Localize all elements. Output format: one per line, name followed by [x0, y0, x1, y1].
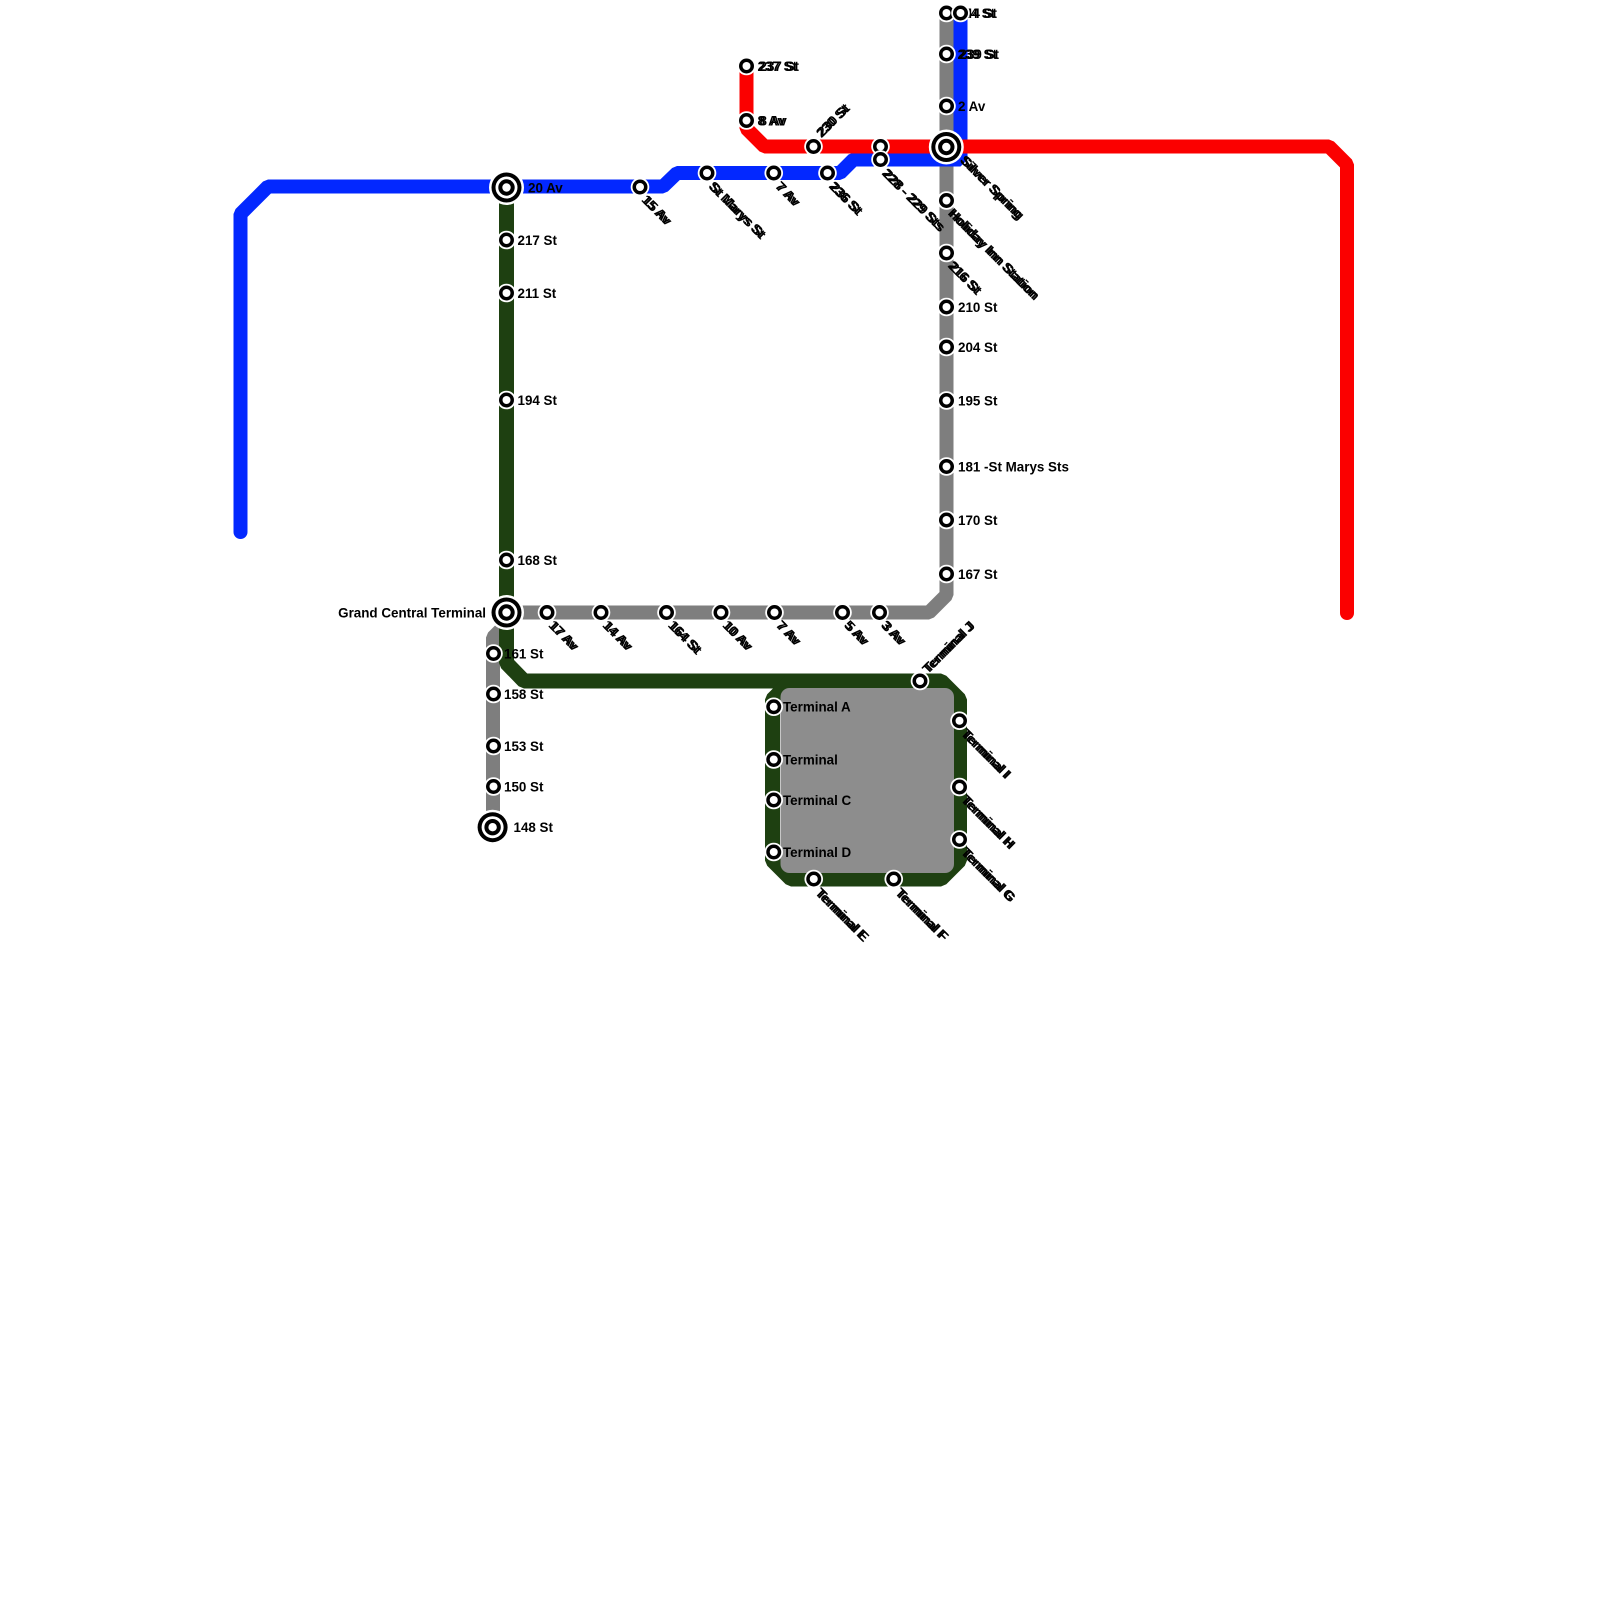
svg-text:194 St: 194 St — [518, 393, 558, 408]
node label 230 St (rotated) — [813, 100, 853, 140]
node station 7 Av gray — [765, 603, 784, 622]
svg-text:158 St: 158 St — [504, 687, 544, 702]
node station 164 St — [657, 603, 676, 622]
node station Terminal G — [950, 830, 969, 849]
svg-text:Terminal C: Terminal C — [783, 793, 852, 808]
svg-text:210 St: 210 St — [958, 300, 998, 315]
node station 7 Av blue — [764, 164, 783, 183]
svg-text:148 St: 148 St — [514, 820, 554, 835]
node station 14 Av — [592, 603, 611, 622]
node station 150 St — [484, 777, 503, 796]
svg-text:St Marys St: St Marys St — [707, 180, 770, 243]
svg-text:20 Av: 20 Av — [528, 181, 563, 196]
node station 204 St — [937, 338, 956, 357]
node station 5 Av — [833, 603, 852, 622]
svg-text:17 Av: 17 Av — [547, 619, 583, 655]
node label Terminal F (rotated) — [892, 885, 951, 944]
node label 228 - 229 Sts (rotated) — [879, 165, 948, 234]
node station 2 Av — [937, 97, 956, 116]
node station 15 Av — [631, 178, 650, 197]
node station Holiday Inn Station — [937, 191, 956, 210]
node label 3 Av (rotated) — [878, 617, 910, 649]
wire gray branch: GCT south to 148 St — [493, 613, 507, 820]
svg-text:204 St: 204 St — [958, 340, 998, 355]
svg-text:217 St: 217 St — [518, 233, 558, 248]
node station 228-229 red — [871, 137, 890, 156]
node label 7 Av blue (rotated) — [772, 178, 804, 210]
node station 10 Av — [712, 603, 731, 622]
node station 153 St — [484, 737, 503, 756]
svg-text:237 St: 237 St — [760, 59, 800, 74]
node station Terminal A — [764, 697, 783, 716]
node label 236 St (rotated) — [826, 178, 866, 218]
node station 167 St — [937, 565, 956, 584]
node station 216 St — [937, 244, 956, 263]
node label Terminal J (rotated) — [919, 618, 978, 677]
node station Terminal I — [950, 711, 969, 730]
node label Holiday Inn Station (rotated) — [945, 205, 1043, 303]
svg-text:239 St: 239 St — [960, 47, 1000, 62]
node station 211 St — [497, 284, 516, 303]
svg-text:Terminal F: Terminal F — [894, 886, 952, 944]
node station 194 St — [497, 391, 516, 410]
node station 161 St — [484, 644, 503, 663]
wire blue line — [241, 13, 961, 532]
svg-text:168 St: 168 St — [518, 553, 558, 568]
node station Terminal J — [911, 672, 930, 691]
node label Silver Spring (rotated) — [957, 152, 1027, 222]
node label 10 Av (rotated) — [720, 617, 757, 654]
node interchange Silver Spring — [929, 130, 964, 165]
node label 5 Av (rotated) — [841, 617, 873, 649]
node label St Marys St (rotated) — [706, 178, 770, 242]
node station Terminal F — [884, 870, 903, 889]
svg-text:Terminal G: Terminal G — [960, 846, 1019, 905]
wire red line — [747, 68, 1348, 613]
node label 14 Av (rotated) — [600, 617, 637, 654]
svg-text:170 St: 170 St — [958, 513, 998, 528]
node station Terminal B — [764, 750, 783, 769]
svg-text:Terminal I: Terminal I — [960, 727, 1015, 782]
svg-text:167 St: 167 St — [958, 567, 998, 582]
svg-text:Terminal H: Terminal H — [960, 793, 1019, 852]
node station 3 Av — [870, 603, 889, 622]
node interchange 20 Av — [489, 170, 524, 205]
svg-text:Terminal: Terminal — [783, 753, 838, 768]
node station 236 St — [818, 164, 837, 183]
node interchange 148 St — [475, 810, 510, 845]
svg-text:Terminal J: Terminal J — [921, 618, 978, 675]
node interchange Grand Central Terminal — [489, 595, 524, 630]
node station 168 St — [497, 551, 516, 570]
node station 170 St — [937, 511, 956, 530]
svg-text:15 Av: 15 Av — [640, 193, 676, 229]
node label 7 Av gray (rotated) — [773, 617, 805, 649]
terminal area gray fill — [781, 688, 955, 873]
node station 244 St blue — [951, 4, 970, 23]
node station 195 St — [937, 391, 956, 410]
svg-text:153 St: 153 St — [504, 739, 544, 754]
svg-text:150 St: 150 St — [504, 780, 544, 795]
node station 181 -St Marys Sts — [937, 457, 956, 476]
svg-text:44 St: 44 St — [965, 6, 998, 21]
svg-text:236 St: 236 St — [828, 180, 867, 219]
svg-text:164 St: 164 St — [667, 619, 706, 658]
node station 230 St — [804, 137, 823, 156]
svg-text:161 St: 161 St — [504, 647, 544, 662]
svg-text:230 St: 230 St — [814, 100, 853, 139]
svg-text:Grand Central Terminal: Grand Central Terminal — [338, 606, 486, 621]
node label Terminal E (rotated) — [812, 885, 872, 945]
node station Terminal D — [764, 843, 783, 862]
node station 228-229 blue — [871, 150, 890, 169]
svg-text:2 Av: 2 Av — [958, 99, 986, 114]
svg-text:10 Av: 10 Av — [721, 619, 757, 655]
node station Terminal C — [764, 791, 783, 810]
node station Terminal E — [804, 870, 823, 889]
node label 216 St (rotated) — [945, 258, 985, 298]
node station 237 St — [737, 57, 756, 76]
node label Terminal G (rotated) — [958, 844, 1019, 905]
svg-text:Holiday Inn Station: Holiday Inn Station — [947, 207, 1043, 303]
svg-text:Terminal A: Terminal A — [783, 700, 851, 715]
node station St Marys St — [698, 164, 717, 183]
wire green terminal loop — [773, 681, 960, 879]
node label Terminal I (rotated) — [958, 726, 1014, 782]
svg-text:211 St: 211 St — [518, 286, 557, 301]
node label 17 Av (rotated) — [546, 617, 583, 654]
node station Terminal H — [950, 778, 969, 797]
wire green stem: 20 Av to terminal loop — [507, 187, 796, 681]
svg-text:8 Av: 8 Av — [760, 114, 788, 129]
node station 244 St gray — [937, 4, 956, 23]
node station 8 Av — [737, 111, 756, 130]
node station 210 St — [937, 298, 956, 317]
svg-text:Silver Spring: Silver Spring — [958, 154, 1027, 223]
node station 217 St — [497, 231, 516, 250]
svg-text:195 St: 195 St — [958, 394, 998, 409]
svg-text:Terminal E: Terminal E — [814, 886, 872, 944]
svg-text:Terminal D: Terminal D — [783, 845, 852, 860]
node label 15 Av (rotated) — [639, 192, 676, 229]
wire gray trunk: 244 St top to Grand Central Terminal — [507, 13, 947, 613]
svg-text:181 -St Marys Sts: 181 -St Marys Sts — [958, 460, 1069, 475]
node label Terminal H (rotated) — [958, 792, 1018, 852]
node station 17 Av — [538, 603, 557, 622]
node station 239 St — [937, 45, 956, 64]
node station 158 St — [484, 685, 503, 704]
node label 164 St (rotated) — [665, 617, 705, 657]
svg-text:14 Av: 14 Av — [601, 619, 637, 655]
